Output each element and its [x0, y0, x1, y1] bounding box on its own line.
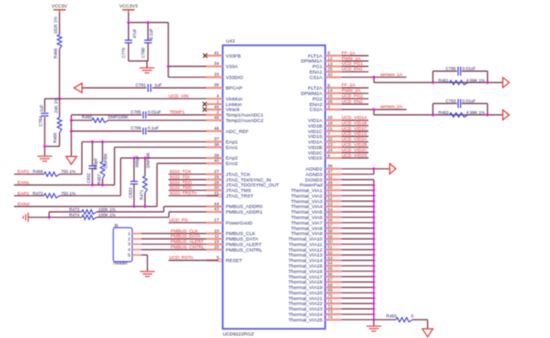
svg-text:40: 40 [214, 158, 220, 163]
svg-text:74: 74 [328, 315, 334, 320]
svg-text:23: 23 [328, 142, 334, 147]
svg-text:64: 64 [328, 261, 334, 266]
svg-text:DNP/0K: DNP/0K [146, 152, 151, 168]
svg-text:Thermal_VIA11: Thermal_VIA11 [289, 242, 323, 248]
svg-text:69: 69 [328, 288, 334, 293]
svg-text:VID2A: VID2A [308, 140, 323, 146]
svg-text:R473: R473 [69, 207, 80, 212]
svg-text:4.99K 1%: 4.99K 1% [466, 78, 485, 83]
svg-text:42: 42 [328, 72, 334, 77]
svg-text:26: 26 [328, 99, 334, 104]
svg-text:UCD_VID1S: UCD_VID1S [342, 131, 367, 136]
svg-text:35: 35 [214, 83, 220, 88]
svg-text:LinMon: LinMon [226, 102, 242, 108]
svg-text:9222_TCK: 9222_TCK [170, 169, 192, 174]
svg-text:61: 61 [328, 245, 334, 250]
svg-text:27: 27 [214, 169, 220, 174]
svg-text:102K 1%: 102K 1% [53, 16, 58, 34]
svg-text:VID2S: VID2S [308, 156, 323, 162]
svg-text:JTAG_TCK: JTAG_TCK [226, 172, 251, 178]
svg-text:UCD_VID2C: UCD_VID2C [342, 147, 368, 152]
svg-text:Vtrack: Vtrack [226, 107, 240, 113]
svg-text:C832: C832 [86, 172, 91, 183]
svg-text:58: 58 [328, 228, 334, 233]
svg-text:PG1: PG1 [313, 64, 323, 70]
svg-text:10: 10 [214, 228, 220, 233]
svg-text:900pF: 900pF [93, 157, 98, 170]
svg-text:RESET: RESET [226, 258, 242, 264]
svg-text:19: 19 [214, 239, 220, 244]
svg-text:30: 30 [214, 185, 220, 190]
svg-text:Thermal_VIA8: Thermal_VIA8 [291, 226, 323, 232]
svg-text:R467: R467 [96, 174, 101, 185]
svg-text:C779: C779 [121, 47, 126, 58]
svg-text:47uF: 47uF [132, 28, 137, 38]
svg-text:JTAG_TMS: JTAG_TMS [226, 188, 252, 194]
svg-text:R462: R462 [438, 110, 449, 115]
svg-text:EAP2: EAP2 [18, 191, 30, 196]
svg-text:PMBUS_CLK: PMBUS_CLK [171, 228, 198, 233]
svg-text:J6: J6 [114, 223, 119, 228]
svg-text:UCD_RSTn: UCD_RSTn [169, 255, 193, 260]
svg-text:FF_1A: FF_1A [342, 50, 356, 55]
svg-text:PMBUS_CNTRL: PMBUS_CNTRL [226, 247, 263, 253]
svg-text:21: 21 [328, 126, 334, 131]
svg-text:Thermal_VIA10: Thermal_VIA10 [288, 237, 322, 243]
svg-text:V33DIO: V33DIO [226, 75, 244, 81]
svg-text:EAn1: EAn1 [226, 145, 238, 151]
svg-text:AGND3: AGND3 [305, 172, 322, 178]
svg-text:60: 60 [328, 239, 334, 244]
svg-text:Thermal_VIA2: Thermal_VIA2 [291, 193, 323, 199]
svg-text:750 1%: 750 1% [61, 169, 76, 174]
svg-text:46: 46 [214, 115, 220, 120]
svg-text:34: 34 [214, 61, 220, 66]
svg-text:UCD_PG: UCD_PG [169, 217, 188, 222]
svg-text:UCD_VID1A: UCD_VID1A [342, 115, 367, 120]
svg-text:Thermal_VIA13: Thermal_VIA13 [288, 253, 322, 259]
svg-text:PMBUS_ALERT: PMBUS_ALERT [171, 239, 204, 244]
svg-text:44: 44 [214, 201, 220, 206]
svg-text:22: 22 [328, 137, 334, 142]
svg-text:Thermal_VIA14: Thermal_VIA14 [288, 258, 322, 264]
svg-text:PMBUS_DATA: PMBUS_DATA [171, 234, 201, 239]
svg-text:52: 52 [328, 196, 334, 201]
svg-text:PowerPad: PowerPad [300, 183, 323, 189]
svg-text:ADC_REF: ADC_REF [226, 129, 249, 135]
svg-text:PMBUS_CLK: PMBUS_CLK [226, 231, 256, 237]
svg-text:DGND3: DGND3 [305, 177, 322, 183]
svg-text:Thermal_VIA21: Thermal_VIA21 [288, 296, 322, 302]
svg-text:Temp1/AuxADC1: Temp1/AuxADC1 [226, 113, 264, 119]
svg-text:UCD_EN2: UCD_EN2 [342, 99, 364, 104]
svg-text:C833: C833 [128, 187, 133, 198]
svg-text:1uF: 1uF [39, 104, 44, 112]
svg-text:TEMP1: TEMP1 [170, 109, 186, 114]
svg-text:VID1C: VID1C [308, 129, 323, 135]
svg-text:UCD_VIN: UCD_VIN [169, 93, 189, 98]
svg-text:PMBUS_DATA: PMBUS_DATA [226, 237, 259, 243]
svg-text:V33FB: V33FB [226, 53, 241, 59]
svg-text:Thermal_VIA17: Thermal_VIA17 [288, 274, 322, 280]
svg-text:Thermal_VIA4: Thermal_VIA4 [291, 204, 323, 210]
svg-text:PMBUS_ADDR1: PMBUS_ADDR1 [226, 210, 263, 216]
svg-text:PMBUS_ALERT: PMBUS_ALERT [226, 242, 262, 248]
svg-text:FF_2A: FF_2A [342, 83, 356, 88]
svg-text:70: 70 [328, 293, 334, 298]
svg-text:Thermal_VIA15: Thermal_VIA15 [288, 264, 322, 270]
svg-text:VID1B: VID1B [308, 123, 322, 129]
svg-text:13: 13 [328, 61, 334, 66]
svg-text:24K 1%: 24K 1% [54, 98, 59, 113]
svg-text:JTAG_TRST: JTAG_TRST [226, 193, 254, 199]
svg-text:0.1uF: 0.1uF [148, 126, 159, 131]
svg-text:EAN2: EAN2 [18, 202, 30, 207]
svg-text:38: 38 [214, 142, 220, 147]
svg-text:Thermal_VIA20: Thermal_VIA20 [288, 291, 322, 297]
svg-text:43: 43 [214, 207, 220, 212]
svg-text:DPWM2A: DPWM2A [301, 91, 323, 97]
svg-text:UCD_VID1B: UCD_VID1B [342, 121, 367, 126]
svg-text:9222_TRSTn: 9222_TRSTn [170, 191, 197, 196]
svg-text:R461: R461 [438, 78, 449, 83]
svg-text:Thermal_VIA9: Thermal_VIA9 [291, 231, 323, 237]
svg-text:33: 33 [214, 72, 220, 77]
svg-text:29: 29 [214, 174, 220, 179]
svg-text:100K 1%: 100K 1% [98, 213, 116, 218]
svg-text:24: 24 [328, 148, 334, 153]
svg-text:14: 14 [328, 88, 334, 93]
svg-text:45: 45 [214, 104, 220, 109]
svg-text:ENA1: ENA1 [310, 70, 323, 76]
svg-text:67: 67 [328, 277, 334, 282]
svg-text:UCD_PG2: UCD_PG2 [342, 94, 364, 99]
svg-text:32: 32 [328, 175, 334, 180]
svg-text:ENA2: ENA2 [310, 102, 323, 108]
svg-text:39: 39 [214, 153, 220, 158]
svg-text:Thermal_VIA19: Thermal_VIA19 [288, 285, 322, 291]
svg-text:57: 57 [328, 223, 334, 228]
svg-text:EAn2: EAn2 [226, 161, 238, 167]
svg-text:UCD_VID2B: UCD_VID2B [342, 142, 367, 147]
svg-text:JTAG_TDI/SYNC_IN: JTAG_TDI/SYNC_IN [226, 177, 272, 183]
svg-text:48: 48 [214, 126, 220, 131]
svg-text:EAP1: EAP1 [18, 169, 30, 174]
svg-text:Thermal_VIA12: Thermal_VIA12 [288, 247, 322, 253]
svg-text:R466: R466 [53, 48, 58, 59]
svg-text:Thermal_VIA18: Thermal_VIA18 [288, 280, 322, 286]
svg-text:UCD9222RGZ: UCD9222RGZ [223, 331, 254, 337]
svg-text:28: 28 [214, 180, 220, 185]
svg-text:VinMon: VinMon [226, 96, 243, 102]
svg-text:C781: C781 [136, 82, 147, 87]
svg-text:20: 20 [214, 244, 220, 249]
svg-text:UCD_VID1C: UCD_VID1C [342, 126, 368, 131]
svg-text:Thermal_VIA25: Thermal_VIA25 [288, 317, 322, 323]
svg-text:Thermal_VIA24: Thermal_VIA24 [288, 312, 322, 318]
svg-text:54: 54 [328, 207, 334, 212]
svg-text:R469: R469 [53, 132, 58, 143]
svg-text:C780: C780 [141, 47, 146, 58]
svg-text:17: 17 [214, 218, 220, 223]
svg-text:62: 62 [328, 250, 334, 255]
svg-text:900pF: 900pF [134, 155, 139, 168]
svg-text:31: 31 [214, 191, 220, 196]
svg-text:0.1uF: 0.1uF [148, 28, 153, 39]
svg-text:9222_TMS: 9222_TMS [170, 185, 192, 190]
svg-text:U43: U43 [226, 39, 235, 45]
svg-text:51: 51 [328, 191, 334, 196]
svg-text:VCC5V: VCC5V [52, 4, 69, 9]
svg-text:9222_TDI: 9222_TDI [170, 175, 190, 180]
svg-text:VID1A: VID1A [308, 118, 323, 124]
svg-text:15: 15 [328, 94, 334, 99]
svg-text:senses_1A: senses_1A [380, 72, 402, 77]
svg-text:C784: C784 [38, 116, 43, 127]
svg-text:68: 68 [328, 282, 334, 287]
svg-text:R460: R460 [82, 115, 93, 120]
svg-text:36: 36 [328, 164, 334, 169]
svg-text:R471: R471 [139, 189, 144, 200]
svg-text:R472: R472 [33, 191, 44, 196]
svg-text:66: 66 [328, 272, 334, 277]
svg-text:DNP/0K: DNP/0K [103, 153, 108, 169]
svg-text:UCD_VID2S: UCD_VID2S [342, 153, 367, 158]
svg-text:50: 50 [328, 185, 334, 190]
svg-text:4.99K 1%: 4.99K 1% [466, 110, 485, 115]
svg-text:FLT2A: FLT2A [308, 86, 323, 92]
svg-text:Thermal_VIA6: Thermal_VIA6 [291, 215, 323, 221]
svg-text:37: 37 [214, 137, 220, 142]
svg-text:49: 49 [328, 180, 334, 185]
svg-text:PWM_2A: PWM_2A [342, 88, 361, 93]
svg-text:Thermal_VIA3: Thermal_VIA3 [291, 199, 323, 205]
svg-text:Thermal_VIA1: Thermal_VIA1 [291, 188, 323, 194]
svg-text:Thermal_VIA22: Thermal_VIA22 [288, 301, 322, 307]
svg-text:Thermal_VIA7: Thermal_VIA7 [291, 220, 323, 226]
svg-text:PWM_1A: PWM_1A [342, 56, 361, 61]
svg-text:56: 56 [328, 218, 334, 223]
svg-text:AGND2: AGND2 [305, 167, 322, 173]
svg-text:100K 1%: 100K 1% [98, 207, 116, 212]
svg-text:47: 47 [328, 169, 334, 174]
svg-text:25: 25 [328, 67, 334, 72]
svg-text:EAp2: EAp2 [226, 156, 238, 162]
svg-text:55: 55 [328, 212, 334, 217]
svg-text:EAN1: EAN1 [18, 180, 30, 185]
svg-text:Temp2/AuxADC2: Temp2/AuxADC2 [226, 118, 264, 124]
svg-text:0.01uF: 0.01uF [462, 99, 476, 104]
svg-text:EAp1: EAp1 [226, 140, 238, 146]
svg-text:UCD_VID2A: UCD_VID2A [342, 137, 367, 142]
svg-text:VID2C: VID2C [308, 150, 323, 156]
svg-text:V33A: V33A [226, 64, 239, 70]
svg-text:UCD_PG1: UCD_PG1 [342, 61, 364, 66]
svg-text:DNP/100K: DNP/100K [108, 115, 128, 120]
svg-text:C789: C789 [131, 126, 142, 131]
svg-text:VCC3V3: VCC3V3 [119, 4, 138, 9]
svg-text:65: 65 [328, 266, 334, 271]
svg-text:VID1S: VID1S [308, 134, 323, 140]
svg-text:C786: C786 [446, 66, 457, 71]
svg-text:R468: R468 [33, 169, 44, 174]
svg-text:72: 72 [328, 304, 334, 309]
svg-text:18: 18 [328, 121, 334, 126]
svg-text:11: 11 [214, 234, 219, 239]
svg-text:Thermal_VIA23: Thermal_VIA23 [288, 307, 322, 313]
svg-text:PG2: PG2 [313, 96, 323, 102]
svg-text:R474: R474 [69, 213, 80, 218]
svg-text:FLT1A: FLT1A [308, 53, 323, 59]
svg-text:PowerGooD: PowerGooD [226, 220, 253, 226]
svg-text:73: 73 [328, 309, 334, 314]
svg-text:Header: Header [113, 260, 128, 265]
svg-text:9222_TDO: 9222_TDO [170, 180, 193, 185]
svg-text:750 1%: 750 1% [61, 191, 76, 196]
svg-text:BPCAP: BPCAP [226, 86, 243, 92]
svg-text:53: 53 [328, 201, 334, 206]
svg-text:41: 41 [214, 50, 220, 55]
svg-text:CS1A: CS1A [310, 75, 324, 81]
svg-text:0.01uF: 0.01uF [148, 109, 162, 114]
svg-text:senses_2A: senses_2A [380, 104, 402, 109]
svg-text:PMBUS_CNTRL: PMBUS_CNTRL [171, 244, 205, 249]
svg-text:R483: R483 [386, 314, 397, 319]
svg-text:63: 63 [328, 255, 334, 260]
svg-text:CS2A: CS2A [310, 107, 324, 113]
svg-text:59: 59 [328, 234, 334, 239]
svg-text:Thermal_VIA16: Thermal_VIA16 [288, 269, 322, 275]
svg-text:16: 16 [328, 115, 334, 120]
svg-text:UCD_EN1: UCD_EN1 [342, 67, 364, 72]
svg-text:JTAG_TDO/SYNC_OUT: JTAG_TDO/SYNC_OUT [226, 183, 279, 189]
svg-text:1uF: 1uF [155, 82, 163, 87]
svg-text:71: 71 [328, 298, 334, 303]
svg-text:VID2B: VID2B [308, 145, 322, 151]
svg-text:PMBUS_ADDR0: PMBUS_ADDR0 [226, 204, 263, 210]
svg-text:12: 12 [328, 56, 334, 61]
svg-text:Thermal_VIA5: Thermal_VIA5 [291, 210, 323, 216]
svg-text:C783: C783 [446, 99, 457, 104]
svg-text:DPWM1A: DPWM1A [301, 59, 323, 65]
svg-text:0.01uF: 0.01uF [462, 66, 476, 71]
svg-text:C785: C785 [131, 109, 142, 114]
